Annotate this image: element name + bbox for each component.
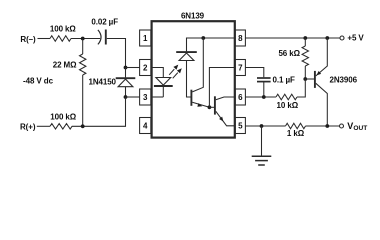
svg-text:10 kΩ: 10 kΩ [277,101,299,110]
transistor Q1 inside U1 [191,38,209,107]
svg-text:2: 2 [143,63,148,72]
node H junction dot (2N3906 emitter rail) [325,36,329,40]
wire node C down to R(+) row [72,97,126,126]
wire photodiode anode to Q1 base [187,61,191,98]
pin 7 box [235,60,245,76]
svg-text:R(–): R(–) [20,35,36,44]
svg-text:1N4150: 1N4150 [88,77,116,86]
transistor Q3 2N3906 [315,38,327,126]
diode D1 1N4150 [116,68,136,98]
pin 5 box [235,118,245,134]
wire node I to Q3 base [305,78,314,80]
svg-text:22 MΩ: 22 MΩ [53,60,77,69]
svg-text:100 kΩ: 100 kΩ [50,24,77,33]
svg-text:1: 1 [143,34,148,43]
svg-text:+5 V: +5 V [347,34,364,43]
node J junction dot (C2 bottom on pin 6 net) [262,95,266,99]
IC U1 body [152,21,235,137]
wire R(-) to R1 [38,38,51,40]
wire pin 7 to C2 [245,68,263,78]
resistor R5 10 k [276,94,297,100]
wire pin 6 to R5 [245,96,276,98]
svg-text:7: 7 [238,63,243,72]
wire VCC top rail inside U1 (photodiode to pin 8) [187,38,236,51]
LED light arrow 1 [169,65,178,75]
svg-text:6N139: 6N139 [181,12,205,21]
wire pin 3 to LED cathode [151,96,164,98]
svg-text:56 kΩ: 56 kΩ [278,49,300,58]
resistor R6 1 k [286,123,306,129]
node K junction dot (ground tap) [260,124,264,128]
node B junction dot (pin 2 net) [124,66,128,70]
node G junction dot (56k top) [303,36,307,40]
svg-text:0.02 µF: 0.02 µF [91,18,118,27]
node A junction dot [81,37,85,41]
wire pin 2 to LED anode [151,68,164,78]
node F junction dot (Q1 emitter / Q2 base / pin 7) [208,105,212,109]
svg-text:1 kΩ: 1 kΩ [287,129,305,138]
node L junction dot (Q3 collector / output) [325,124,329,128]
wire R(+) to R3 [37,125,50,127]
photodiode D3 inside U1 [176,52,197,60]
transistor Q2 inside U1 [209,96,235,126]
node C junction dot (pin 3 net) [124,95,128,99]
node I junction dot (Q3 base) [303,77,307,81]
capacitor C2 0.1 uF [257,78,271,97]
wire pin 5 to VOUT [245,125,285,127]
wire R5 to node I riser [297,79,305,97]
node E junction dot (Q1 collector to VCC) [201,36,205,40]
terminal VOUT [340,121,368,132]
wire node C to pin 3 [126,96,140,98]
wire pin 7 to node F [209,68,235,108]
pin 6 box [235,89,245,105]
resistor R3 100 k [50,124,72,130]
wire node B to pin 2 [126,67,140,69]
LED D2 inside U1 [154,78,173,98]
svg-text:0.1 µF: 0.1 µF [273,75,295,84]
svg-text:OUT: OUT [353,125,367,132]
resistor R4 56 k vertical [302,38,308,79]
svg-text:100 kΩ: 100 kΩ [50,113,77,122]
wire pin 8 to +5V terminal [245,37,340,39]
pin 2 box [140,60,151,76]
svg-text:4: 4 [143,121,148,130]
svg-text:R(+): R(+) [20,123,36,132]
terminal +5 V [340,34,364,43]
capacitor C1 0.02 uF curved plate [98,30,101,45]
pin 1 box [140,30,151,46]
pin 4 box [140,118,151,134]
svg-text:6: 6 [238,93,243,102]
node D junction dot on R(+) row [81,124,85,128]
wire C1 to node B corner [107,39,126,68]
wire R6 to VOUT terminal [306,125,340,127]
ground [252,126,272,165]
wire R1 to node A [71,38,100,40]
pin 8 box [235,30,245,46]
svg-text:5: 5 [238,121,243,130]
capacitor C1 straight plate [105,30,107,45]
svg-text:8: 8 [238,34,243,43]
svg-text:-48 V dc: -48 V dc [23,76,54,85]
LED light arrow 2 [173,68,182,78]
resistor R2 22 M vertical [80,39,86,127]
svg-text:2N3906: 2N3906 [330,75,358,84]
pin 3 box [140,89,151,105]
svg-text:3: 3 [143,93,148,102]
resistor R1 100 k [50,36,71,42]
